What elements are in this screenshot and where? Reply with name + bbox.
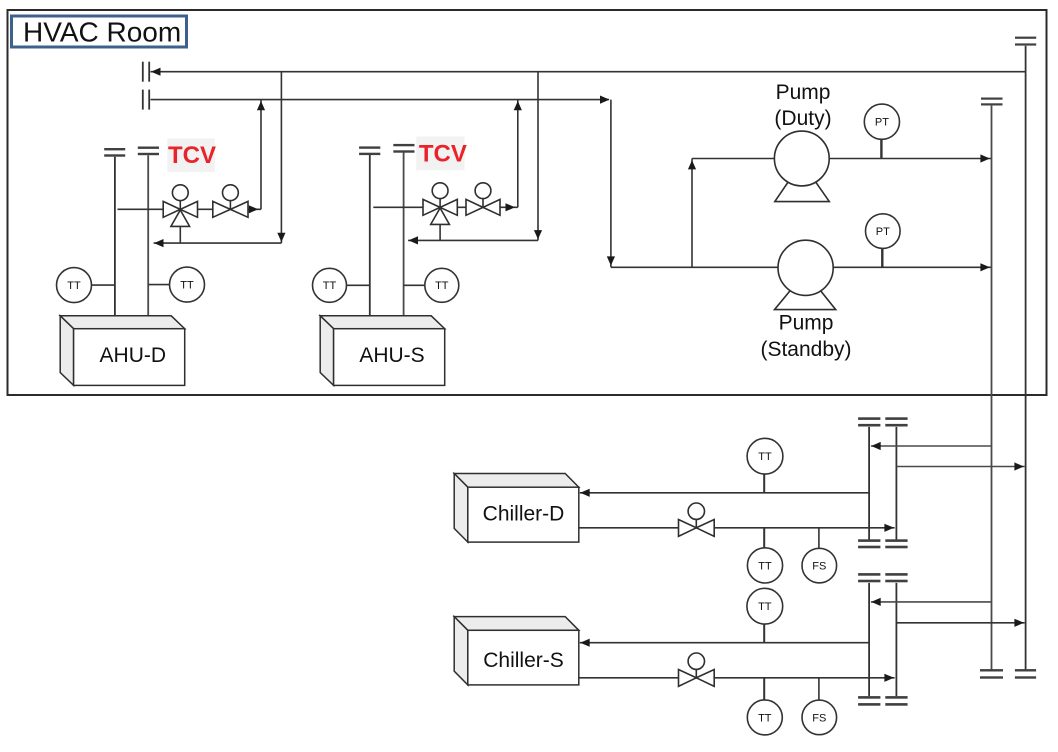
wire: AHU-S riser to line 2	[517, 100, 519, 208]
wire: 3-way valve to AHU-S return line	[439, 224, 441, 240]
3-way valve TCV (AHU-S)	[423, 183, 457, 225]
svg-text:TT: TT	[323, 280, 337, 292]
AHU-S return line	[408, 239, 538, 241]
TCV label background (AHU-S)	[416, 137, 464, 171]
instrument TT (chiller-S supply)	[763, 678, 765, 700]
2-way valve (AHU-D)	[213, 185, 248, 218]
standby pump suction line	[611, 266, 992, 268]
svg-text:TT: TT	[67, 280, 81, 292]
HVAC Room label box	[12, 16, 187, 47]
instrument TT (AHU-D left)	[92, 284, 115, 286]
instrument TT (AHU-S right)	[404, 284, 425, 286]
cap flange at bottom of discharge riser	[980, 669, 1003, 671]
wire: AHU-D riser to line 2	[260, 100, 262, 210]
instrument TT (chiller-S return)	[763, 624, 765, 643]
instrument TT (chiller-D return)	[763, 474, 765, 493]
svg-text:TT: TT	[758, 451, 772, 463]
svg-text:TT: TT	[758, 560, 772, 572]
riser B (chiller-D supply header)	[895, 427, 897, 540]
HVAC room boundary	[8, 10, 1047, 395]
pump (standby)	[775, 240, 836, 309]
AHU-S flange F1	[359, 146, 380, 148]
TCV label background (AHU-D)	[167, 139, 215, 173]
flange at top of discharge riser	[981, 98, 1003, 100]
svg-text:TT: TT	[180, 280, 194, 292]
AHU-S flange F2	[393, 144, 414, 146]
wire: 3-way valve to AHU-D return line	[179, 226, 181, 243]
cap flange at bottom of supply riser	[1015, 669, 1036, 671]
instrument FS (chiller-D supply)	[818, 528, 820, 549]
wire: chiller-D supply riser to CHW supply riser	[896, 466, 1024, 468]
svg-text:(Standby): (Standby)	[760, 338, 851, 361]
AHU-S unit box	[320, 316, 445, 386]
instrument PT (standby)	[881, 249, 883, 268]
2-way valve (AHU-S)	[466, 183, 500, 216]
AHU-D flange F1	[104, 148, 125, 150]
svg-text:TT: TT	[758, 712, 772, 724]
svg-text:FS: FS	[812, 561, 826, 573]
svg-text:Pump: Pump	[776, 81, 831, 104]
svg-text:TT: TT	[435, 280, 449, 292]
svg-text:Chiller-S: Chiller-S	[483, 649, 564, 672]
Chiller-D unit box	[454, 474, 579, 543]
svg-text:Pump: Pump	[779, 312, 834, 335]
instrument TT (chiller-D supply)	[763, 528, 765, 548]
svg-text:AHU-D: AHU-D	[100, 344, 167, 367]
svg-text:(Duty): (Duty)	[774, 107, 831, 130]
AHU-D unit box	[60, 316, 185, 386]
flange on line 1	[142, 62, 144, 82]
svg-text:AHU-S: AHU-S	[359, 344, 424, 367]
3-way valve TCV (AHU-D)	[163, 185, 197, 227]
wire: discharge riser to chiller-S return riser	[871, 601, 992, 603]
pump discharge riser	[991, 106, 993, 670]
AHU-S pipe from flange F1 down to unit	[369, 155, 371, 316]
isolation valve (chiller-S supply)	[679, 653, 715, 686]
instrument FS (chiller-S supply)	[818, 678, 820, 700]
AHU-D flange F2	[138, 147, 159, 149]
chiller-S return line	[580, 642, 869, 644]
AHU-S valve line	[373, 206, 518, 208]
AHU-D pipe from flange F1 down to unit	[114, 157, 116, 316]
wire: cross connection between pump lines	[691, 159, 693, 268]
AHU-S pipe from flange F2 down to unit	[403, 153, 405, 316]
svg-text:PT: PT	[876, 226, 890, 238]
instrument PT (duty)	[880, 140, 882, 159]
wire: discharge riser to chiller-D return riser	[871, 445, 992, 447]
pump (duty)	[774, 131, 829, 202]
riser A2 (chiller-S return header)	[868, 583, 870, 696]
svg-text:TCV: TCV	[419, 141, 467, 168]
svg-text:TCV: TCV	[168, 142, 216, 169]
flange at top of supply riser	[1015, 37, 1036, 39]
arrow at end of line 2	[600, 96, 610, 104]
wire: drop from line1 to AHU-S return	[537, 72, 539, 241]
svg-text:Chiller-D: Chiller-D	[483, 503, 565, 526]
chiller-D return line	[580, 492, 869, 494]
riser B2 (chiller-S supply header)	[895, 583, 897, 696]
isolation valve (chiller-D supply)	[679, 503, 715, 536]
wire: chiller-S supply riser to CHW supply riser	[896, 622, 1024, 624]
AHU-D pipe from flange F2 down to unit	[147, 155, 149, 316]
arrow into line1 flange	[151, 68, 161, 76]
instrument TT (AHU-S left)	[347, 284, 370, 286]
Chiller-S unit box	[454, 617, 579, 685]
wire: drop from line1 to AHU-D return	[280, 72, 282, 243]
svg-text:FS: FS	[812, 712, 826, 724]
AHU-D return line	[154, 242, 282, 244]
return header line 2	[151, 99, 609, 101]
instrument TT (AHU-D right)	[148, 284, 169, 286]
AHU-D valve line	[118, 208, 262, 210]
wire: line2-end drop to standby suction	[610, 100, 612, 268]
svg-text:HVAC Room: HVAC Room	[23, 17, 181, 48]
flange on line 2	[142, 90, 144, 110]
chiller-S supply line	[579, 677, 895, 679]
duty pump discharge line	[692, 158, 992, 160]
svg-text:PT: PT	[875, 117, 889, 129]
riser A (chiller-D return header)	[868, 427, 870, 540]
svg-text:TT: TT	[758, 601, 772, 613]
chilled water supply riser	[1025, 46, 1027, 670]
supply header line 1	[151, 71, 1026, 73]
chiller-D supply line	[579, 527, 895, 529]
